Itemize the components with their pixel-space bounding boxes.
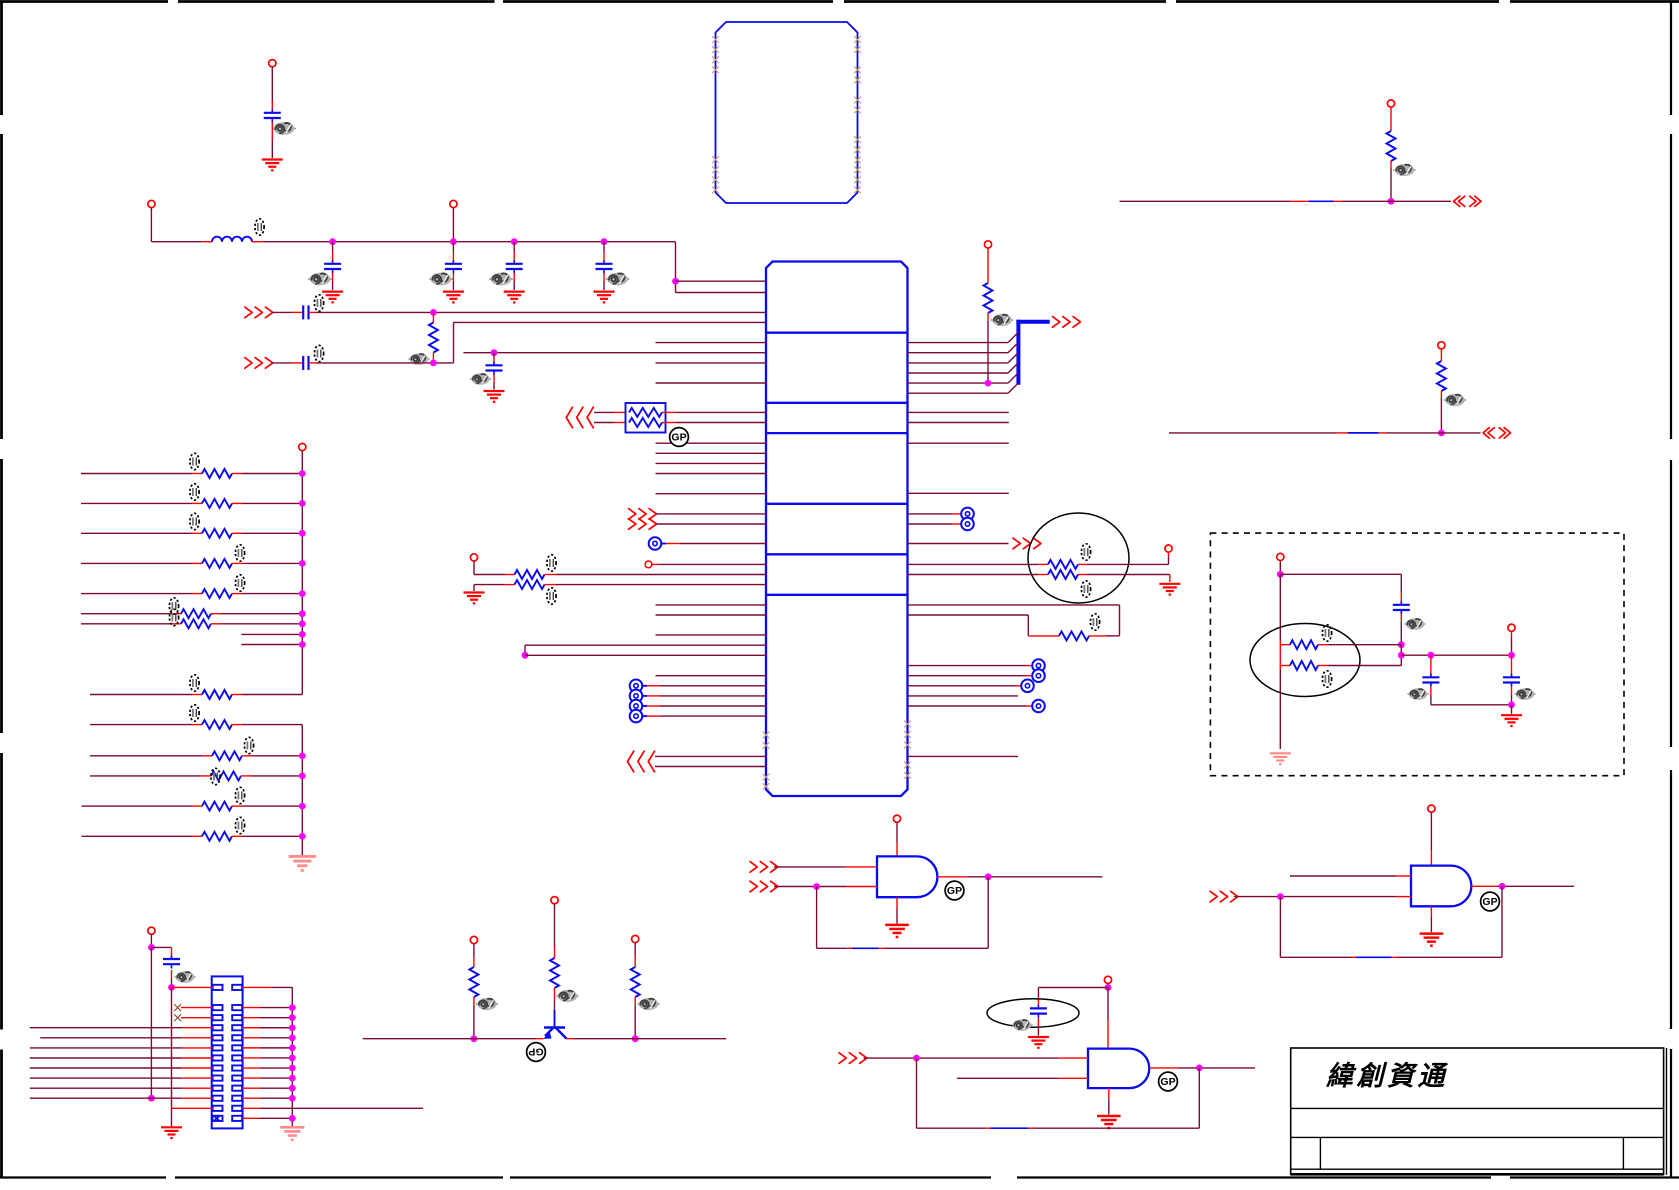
U1 right wire to TP y=513.9 xyxy=(908,513,962,515)
bank2 vertical bus xyxy=(301,725,303,855)
x mark U1 right 724 xyxy=(904,721,911,728)
capacitor C5 xyxy=(596,260,613,273)
x mark U1 right 734.5 xyxy=(904,731,911,738)
GP marker RP1 xyxy=(670,428,689,447)
C10 value label xyxy=(174,971,195,983)
wire chevron pair to U1 b xyxy=(655,766,766,768)
U1 left pin wire y=383.0 xyxy=(656,382,767,384)
P18 down xyxy=(1511,631,1513,655)
R8 value label xyxy=(190,453,199,469)
svg-text:緯創資通: 緯創資通 xyxy=(1325,1061,1448,1091)
J1 right wire y=1007.6 xyxy=(242,1007,292,1009)
bottom row net xyxy=(1431,704,1512,706)
title block xyxy=(1291,1048,1667,1175)
P17 vertical xyxy=(1279,574,1281,749)
P4 down to row 574 xyxy=(473,561,475,575)
junction J1 bus row13 xyxy=(289,1115,296,1122)
power terminal P14 xyxy=(551,897,558,904)
P10 to G1 top xyxy=(896,822,898,856)
junction bus/C5 xyxy=(601,238,608,245)
x mark U2 right 189.9 xyxy=(854,187,861,194)
ground below C1 xyxy=(262,160,283,171)
bank2 resistor R20 xyxy=(202,832,232,841)
U1 left pin wire y=615.0 xyxy=(656,614,767,616)
C2 to ground xyxy=(332,273,334,290)
U1 right bus pin y=373.0 xyxy=(908,363,1018,373)
junction bank1 row 9 xyxy=(299,641,306,648)
junction bank1 row 4 xyxy=(299,560,306,567)
power terminal P9 xyxy=(1438,342,1445,349)
power bus right of L1 xyxy=(252,241,676,243)
R5 value label xyxy=(1081,544,1090,560)
main IC U1 xyxy=(766,262,908,797)
R10 value label xyxy=(190,513,199,529)
J1 right wire y=1037.81 xyxy=(242,1037,292,1039)
power terminal P17 xyxy=(1277,553,1284,560)
junction P16 bus row xyxy=(148,1095,155,1102)
power terminal P11 xyxy=(1428,805,1435,812)
bank2 resistor R16 xyxy=(202,720,232,729)
C10 bus to ground xyxy=(171,987,173,1126)
ground below C9 xyxy=(1028,1037,1049,1048)
highlight ellipse B xyxy=(987,999,1079,1027)
junction mid row xyxy=(1398,652,1405,659)
P12 stub xyxy=(1107,983,1109,987)
bank2 row 4 right wire xyxy=(232,805,302,807)
row 584 corner to R3 xyxy=(474,585,515,591)
ground below G2 xyxy=(1420,934,1444,946)
power terminal P12 xyxy=(1104,976,1111,983)
RP1 b to U1 xyxy=(662,422,766,424)
C4 to ground xyxy=(513,273,515,290)
wire to U1 pin 514 xyxy=(656,513,766,515)
R26 value label xyxy=(1322,625,1331,641)
bus corner down to U1 pins xyxy=(675,242,677,293)
G1 bottom pin to ground xyxy=(896,897,898,923)
R22 value label xyxy=(1444,394,1466,406)
x mark U2 left 69.8 xyxy=(712,66,719,73)
stub to ground xyxy=(1511,705,1513,714)
J1 right wire y=1088.16 xyxy=(242,1087,292,1089)
x mark U2 right 149.7 xyxy=(854,146,861,153)
capacitor C11 xyxy=(1393,601,1410,614)
R21 to net xyxy=(1390,161,1392,201)
capacitor C10 xyxy=(163,956,180,969)
power terminal P10 xyxy=(893,815,900,822)
C12 value label xyxy=(1407,688,1428,700)
row 564 to R5 xyxy=(908,563,1049,565)
resistor R7 xyxy=(1059,631,1089,640)
R4 to bus row xyxy=(987,313,989,383)
C4 stub xyxy=(513,242,515,261)
U1 right stub y=422.5 xyxy=(908,422,1009,424)
G1 feedback left xyxy=(816,887,818,949)
open terminal row 564 xyxy=(645,561,652,568)
R22 to net xyxy=(1440,391,1442,433)
svg-text:GP: GP xyxy=(1482,896,1497,908)
capacitor C8 xyxy=(486,362,503,375)
R24 value label xyxy=(556,990,578,1002)
junction bus/C3 xyxy=(450,238,457,245)
x mark U2 right 139.6 xyxy=(854,136,861,143)
row 574 to R2 xyxy=(474,574,515,576)
RC2 bidir chevrons xyxy=(1483,428,1511,438)
U1 right pin 696 xyxy=(908,695,1019,697)
no-connect blue x J1 row13 xyxy=(214,1115,221,1121)
resistor R6 xyxy=(1048,570,1078,579)
bank1 row 1 left wire xyxy=(81,473,202,475)
U1 right bus pin y=362.9 xyxy=(908,353,1018,363)
R15 value label xyxy=(190,675,199,691)
junction bank2 row 4 xyxy=(299,803,306,810)
resistor R2 xyxy=(515,570,545,579)
corner up to pin row 322 xyxy=(454,322,767,363)
junction G2 input b xyxy=(1277,893,1284,900)
U1 right bus pin y=352.7 xyxy=(908,343,1018,353)
x mark U2 left 49.6 xyxy=(712,46,719,53)
bank1 row 10 left wire xyxy=(90,694,202,696)
x mark U2 right 49.6 xyxy=(854,46,861,53)
wire C6 to U1 xyxy=(309,311,767,313)
Q1 horizontal net xyxy=(363,1038,727,1040)
G3 input wire b xyxy=(957,1077,1088,1079)
bank2 row 2 left wire xyxy=(90,755,212,757)
junction bank1 row 5 xyxy=(299,590,306,597)
junction Q1 row a xyxy=(471,1035,478,1042)
R6 to ground xyxy=(1078,575,1170,583)
resistor R21 xyxy=(1387,131,1396,161)
R1 bottom stub xyxy=(432,353,434,363)
bank1 row 7 left wire xyxy=(81,623,181,625)
G2 feedback right xyxy=(1501,886,1503,957)
U1 right stub y=412.4 xyxy=(908,411,1009,413)
U1 right wire to TP y=524.0 xyxy=(908,523,962,525)
C4 value label xyxy=(489,273,512,286)
junction J1 bus y=1078.0900000000001 xyxy=(289,1075,296,1082)
G2 input wire b xyxy=(1234,896,1411,898)
wire row A to C6 xyxy=(272,311,303,313)
C12 top stub xyxy=(1430,655,1432,675)
C3 value label xyxy=(429,273,452,286)
wire to U1 pin 524 xyxy=(656,523,766,525)
ground below C4 xyxy=(504,292,525,303)
U1 left pin 655 xyxy=(525,654,766,656)
resistor R25 xyxy=(631,967,640,997)
off-page chevrons in-pair xyxy=(566,407,593,428)
capacitor C6 series xyxy=(303,305,308,319)
G1 feedback bottom xyxy=(817,947,989,949)
bank1 stub row 8 xyxy=(241,633,302,635)
junction bank1 row 8 xyxy=(299,631,306,638)
bank1 resistor R8 xyxy=(202,469,232,478)
junction elbow 655 xyxy=(522,652,529,659)
power bus left segment xyxy=(151,241,212,243)
R11 value label xyxy=(235,545,244,561)
test point left y=706.0 xyxy=(630,700,643,713)
G3 bottom pin to ground xyxy=(1108,1088,1110,1114)
junction bank2 row 3 xyxy=(299,773,306,780)
x mark U1 left 735 xyxy=(763,732,770,739)
x mark U1 left 777 xyxy=(763,774,770,781)
bank1 stub row 9 xyxy=(241,644,302,646)
test point left y=695.9 xyxy=(630,690,643,703)
U1 left pin wire y=493.7 xyxy=(656,493,767,495)
junction bank1 row 6 xyxy=(299,610,306,617)
power terminal P6 xyxy=(1165,545,1172,552)
power terminal P7 xyxy=(299,443,306,450)
wire to U1 pin row 281 xyxy=(676,280,767,282)
P15 to R25 xyxy=(634,943,636,967)
G3 feedback right xyxy=(1198,1068,1200,1128)
C9 top stub xyxy=(1037,988,1039,1008)
ground below C2 xyxy=(322,292,343,303)
x mark U2 left 179.8 xyxy=(712,176,719,183)
wire to U1 pin row 292 xyxy=(676,292,767,294)
wire C7 to corner xyxy=(309,362,454,364)
Q1 emitter stubs xyxy=(536,1038,573,1040)
junction bus/C2 xyxy=(329,238,336,245)
wire TP to U1 y=716.1 xyxy=(643,715,767,717)
junction J1 bus y=1068.02 xyxy=(289,1065,296,1072)
U1 left pin wire y=634.9 xyxy=(656,634,767,636)
G1 blue net segment xyxy=(852,947,879,949)
bank2 row 5 right wire xyxy=(232,835,302,837)
junction P16 xyxy=(148,944,155,951)
U1 right pin 675 xyxy=(908,675,1033,677)
G3 top pin xyxy=(1107,988,1109,1049)
R14 value label xyxy=(169,609,178,625)
R20 value label xyxy=(235,817,244,833)
ground bank2 xyxy=(289,856,316,870)
x mark U2 right 159.9 xyxy=(854,157,861,164)
wire chevron pair to U1 a xyxy=(655,755,766,757)
wire TP to U1 y=695.9 xyxy=(643,695,767,697)
resistor R27 xyxy=(1290,661,1318,670)
G3 feedback left xyxy=(916,1058,918,1128)
junction R4/row xyxy=(985,380,992,387)
G1 input wire a xyxy=(774,866,877,868)
x mark U1 left 786.5 xyxy=(763,783,770,790)
G3 input wire a xyxy=(864,1057,1089,1059)
bank2 resistor R19 xyxy=(202,802,232,811)
power terminal P5 xyxy=(984,241,991,248)
sheet frame left border xyxy=(0,1,3,115)
U1 right stub y=443.2 xyxy=(908,442,1009,444)
bank1 row 4 right wire xyxy=(232,562,302,564)
test point left y=685.8 xyxy=(630,680,643,693)
x mark U2 left 39.5 xyxy=(712,36,719,43)
R27 left stub xyxy=(1280,665,1290,667)
R23 to net xyxy=(473,997,475,1039)
R9 value label xyxy=(190,484,199,500)
J1 right wire y=1017.6700000000001 xyxy=(242,1017,292,1019)
U1 left pin wire y=604.9 xyxy=(656,604,767,606)
power terminal P15 xyxy=(632,935,639,942)
U1 right stub y=493.3 xyxy=(908,492,1009,494)
U1 right bus pin y=383.1 xyxy=(908,373,1018,383)
G3 feedback bottom xyxy=(917,1127,1200,1129)
no-connect x J1 row3 xyxy=(174,1014,181,1021)
bank1 resistor R10 xyxy=(202,529,232,538)
P14 to R24 xyxy=(554,904,556,958)
bank1 row 3 left wire xyxy=(81,532,202,534)
G1 input wire b xyxy=(774,886,877,888)
G2 feedback bottom xyxy=(1280,956,1502,958)
resistor R4 xyxy=(984,283,993,313)
resistor R22 xyxy=(1437,361,1446,391)
J1 row13 right wire xyxy=(242,1117,292,1119)
x mark U2 right 100 xyxy=(854,97,861,104)
junction J1 bus y=1047.88 xyxy=(289,1044,296,1051)
highlight circle A xyxy=(1028,513,1129,603)
C9 to ground xyxy=(1037,1018,1039,1036)
bank1 row 2 right wire xyxy=(232,502,302,504)
G1 input chevrons a xyxy=(750,862,778,873)
svg-text:GP: GP xyxy=(671,432,686,444)
G2 feedback left xyxy=(1279,897,1281,958)
R7 right side xyxy=(1089,635,1120,637)
test point right y=524.0 xyxy=(961,518,974,531)
ground below G3 xyxy=(1097,1116,1121,1128)
resistor R1 vertical xyxy=(429,323,438,353)
bank1 row 7 right wire xyxy=(211,623,302,625)
test point right 675 xyxy=(1032,669,1045,682)
C8 value label xyxy=(470,373,491,385)
GP marker G3 xyxy=(1159,1072,1178,1091)
C13 bottom xyxy=(1511,687,1513,705)
bank2 row 4 left wire xyxy=(82,805,203,807)
x mark U1 right 775.5 xyxy=(904,772,911,779)
capacitor C2 xyxy=(324,260,341,273)
R1 top stub xyxy=(432,312,434,322)
bank1 resistor R12 xyxy=(202,589,232,598)
C2 stub xyxy=(332,242,334,261)
AND gate G2 xyxy=(1411,866,1471,907)
bank1 row 10 right wire xyxy=(232,694,302,696)
resistor R24 xyxy=(550,958,559,988)
junction P17 xyxy=(1277,571,1284,578)
U1 right pin 706 xyxy=(908,705,1033,707)
inductor L1 xyxy=(212,237,252,242)
C13 top stub xyxy=(1511,655,1513,675)
junction C11 bottom xyxy=(1398,641,1405,648)
ground below C3 xyxy=(443,292,464,303)
P9 to R22 xyxy=(1440,349,1442,361)
box top net xyxy=(1280,574,1401,603)
U1 right pin 685 xyxy=(908,685,1022,687)
U1 left pin wire y=453.3 xyxy=(656,452,767,454)
junction bank2 row 2 xyxy=(299,752,306,759)
junction at pin row 281 xyxy=(672,278,679,285)
RP1 a to U1 xyxy=(662,411,766,413)
junction J1 bus y=1098.23 xyxy=(289,1095,296,1102)
P16 down xyxy=(150,934,152,947)
x mark U2 right 39.5 xyxy=(854,36,861,43)
power terminal P2 xyxy=(148,200,155,207)
bank1 row 6 left wire xyxy=(81,613,181,615)
R27 right wire xyxy=(1318,665,1401,667)
x mark U2 right 179.8 xyxy=(854,176,861,183)
junction G2 output xyxy=(1499,883,1506,890)
C11 value label xyxy=(1404,618,1425,630)
ground below C5 xyxy=(594,292,615,303)
R4 value label xyxy=(991,314,1013,326)
R5 to P6 xyxy=(1078,552,1169,564)
bank1 resistor R13 xyxy=(181,609,211,618)
off-page chevrons row 514 xyxy=(629,509,657,520)
bank1 resistor R14 xyxy=(181,619,211,628)
bank1 row 5 left wire xyxy=(81,593,202,595)
C5 value label xyxy=(606,273,629,286)
svg-text:GP: GP xyxy=(947,885,962,897)
wire to C10 xyxy=(151,947,171,958)
AND gate G3 xyxy=(1088,1049,1149,1089)
J1 pin boxes xyxy=(213,985,242,1121)
off-page chevrons right 543 xyxy=(1013,538,1041,549)
U1 right pin 756 xyxy=(908,755,1019,757)
TP1 to U1 xyxy=(662,543,767,545)
C1 value label xyxy=(272,122,295,135)
resistor R26 xyxy=(1290,640,1318,649)
connector J1 body xyxy=(212,976,243,1128)
junction bank1 row 3 xyxy=(299,530,306,537)
x mark U2 right 110 xyxy=(854,107,861,114)
RP1 resistor a xyxy=(629,408,662,417)
ground below G1 xyxy=(885,925,909,937)
J1 left wire y=1068.0 xyxy=(30,1067,213,1069)
capacitor C1 xyxy=(264,109,281,122)
RC1 blue net segment xyxy=(1309,200,1334,202)
wire C1 to ground xyxy=(271,122,273,158)
loop resistor row xyxy=(1028,635,1059,637)
junction G3 output xyxy=(1196,1065,1203,1072)
thick blue bus right of U1 xyxy=(1016,320,1049,385)
J1 left wire y=1037.8 xyxy=(40,1037,212,1039)
J1 row3 stub xyxy=(181,1017,213,1019)
bank1 resistor R15 xyxy=(202,690,232,699)
U1 left pin 645 elbow xyxy=(525,645,766,655)
x mark U2 right 169.7 xyxy=(854,166,861,173)
G3 output wire xyxy=(1149,1067,1255,1069)
junction G1 input b xyxy=(813,883,820,890)
capacitor C4 xyxy=(506,260,523,273)
RP1 resistor b xyxy=(629,418,662,427)
P3 stub down xyxy=(452,208,454,242)
J1 row12 right long wire xyxy=(242,1107,423,1109)
R13 value label xyxy=(169,598,178,614)
junction J1 bus y=1027.74 xyxy=(289,1024,296,1031)
C9 value label xyxy=(1011,1019,1032,1031)
GP marker G1 xyxy=(945,881,964,900)
R21 value label xyxy=(1393,164,1415,176)
bus off-page chevrons xyxy=(1053,317,1081,328)
wire chevron to RP1 a xyxy=(594,411,626,413)
bank2 row 1 left wire xyxy=(90,724,202,726)
P11 to G2 top xyxy=(1430,812,1432,865)
wire TP to U1 y=685.8 xyxy=(643,685,767,687)
bank1 row 2 left wire xyxy=(81,502,202,504)
resistor pack RP1 box xyxy=(626,403,666,433)
J1 row2 stub xyxy=(181,1007,213,1009)
U1 right loop upper xyxy=(908,605,1120,636)
wire TP to U1 y=706.0 xyxy=(643,705,767,707)
C5 stub xyxy=(603,242,605,261)
x mark U2 right 79.9 xyxy=(854,77,861,84)
mid row net xyxy=(1401,654,1511,656)
junction G3 power xyxy=(1105,984,1112,991)
junction J1 bus y=1017.6700000000001 xyxy=(289,1014,296,1021)
U1 left pin wire y=342.6 xyxy=(656,342,767,344)
